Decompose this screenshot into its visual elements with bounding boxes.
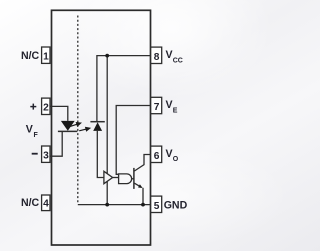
Vcc rail from pin 8 (97, 56, 151, 122)
svg-text:8: 8 (154, 52, 160, 63)
svg-text:GND: GND (164, 200, 188, 212)
svg-text:E: E (173, 107, 178, 114)
svg-text:1: 1 (43, 51, 49, 62)
LED D1 triangle (61, 121, 75, 131)
transistor collector wire to pin 6 (134, 155, 150, 172)
wire LED cathode to pin3 (50, 131, 62, 156)
wire amp output to gate (113, 177, 119, 179)
pin 2 box (42, 98, 50, 114)
emitter vertical to GND rail (142, 188, 144, 205)
transistor emitter wire (134, 183, 141, 187)
photodiode D2 triangle (93, 122, 102, 131)
svg-text:CC: CC (173, 57, 183, 64)
svg-text:2: 2 (43, 102, 49, 113)
pin 5 box (151, 196, 162, 212)
photodiode anode wire to amp input (97, 131, 104, 178)
svg-text:V: V (166, 148, 173, 160)
junction dot GND amp (105, 203, 109, 207)
pin 6 box (151, 146, 162, 162)
junction dot GND emitter (141, 203, 145, 207)
package outline (52, 10, 151, 245)
junction dot Vcc rail (105, 54, 109, 58)
amplifier U1 triangle (104, 171, 113, 183)
label + (anode) (30, 104, 36, 110)
transistor Q1 base bar (133, 168, 135, 189)
svg-text:O: O (173, 156, 179, 163)
svg-text:F: F (34, 132, 39, 139)
pin 4 box (42, 195, 50, 211)
svg-text:V: V (166, 49, 173, 61)
svg-text:4: 4 (43, 199, 49, 210)
pin 7 box (151, 97, 162, 113)
enable wire from pin 7 (116, 106, 151, 175)
svg-text:7: 7 (154, 102, 160, 113)
AND gate (119, 174, 132, 184)
svg-text:V: V (166, 99, 173, 111)
wire pin2 to LED anode (50, 106, 68, 121)
svg-text:N/C: N/C (21, 197, 40, 209)
wire gate output to base (132, 178, 134, 180)
isolation barrier dashed line (77, 16, 79, 205)
pin 8 box (151, 47, 162, 63)
svg-text:N/C: N/C (21, 50, 40, 62)
svg-text:6: 6 (154, 151, 160, 162)
svg-text:5: 5 (154, 201, 160, 212)
pin 3 box (42, 146, 50, 162)
label - (cathode) (32, 153, 38, 155)
amp supply wire lower (106, 181, 108, 204)
GND rail to pin 5 (78, 204, 151, 206)
svg-text:V: V (26, 124, 33, 136)
LED cathode bar (58, 130, 78, 132)
amp supply wire upper (106, 56, 108, 174)
photodiode cathode bar (90, 121, 104, 123)
light arrow 2 (79, 127, 90, 130)
emitter arrowhead (138, 184, 143, 188)
pin 1 box (42, 47, 50, 63)
svg-text:3: 3 (43, 150, 49, 161)
light arrow 1 (70, 123, 81, 127)
